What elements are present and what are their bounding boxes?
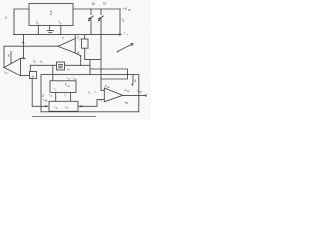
wire bus to amp3 input xyxy=(21,35,26,59)
supply rail +VB xyxy=(73,8,121,10)
wire box a down to divider xyxy=(32,79,48,107)
wire transistor 11 loop to op-amp 9 xyxy=(90,69,128,90)
leader 4 arrow xyxy=(132,74,134,84)
transistor 10 xyxy=(90,9,92,15)
block ta tb xyxy=(49,101,78,111)
transistor 11 xyxy=(100,9,102,15)
junction dot corner-loop xyxy=(89,68,90,69)
junction dot rail-T1 xyxy=(90,8,91,9)
wire bus Fp xyxy=(13,34,122,36)
junction dot rail-T2 xyxy=(100,8,101,9)
wire stray bottom xyxy=(32,115,96,117)
junction dot crystal-boxa xyxy=(30,65,31,66)
junction dot bus-T1 xyxy=(90,34,91,35)
junction dot crystal-fvb xyxy=(52,65,53,66)
switch contact circle xyxy=(131,43,133,45)
junction dot bus-amp3 xyxy=(23,34,24,35)
switch lever xyxy=(118,45,132,52)
box 1 (oscillator block) xyxy=(29,4,73,26)
stub component to bus xyxy=(84,35,86,39)
junction dot bus-comp xyxy=(84,34,85,35)
wire block out to op-amp 9 xyxy=(78,100,104,107)
junction dot crystal-node8 xyxy=(80,65,81,66)
amplifier 7 (pointing left) xyxy=(58,39,75,54)
amplifier 3 (pointing left) xyxy=(4,58,21,75)
wire crystal net to block Fvb xyxy=(52,65,54,81)
crystal 5 xyxy=(57,62,65,70)
capacitor stub under box 1 xyxy=(49,26,51,31)
wires block Fvb to block tab xyxy=(55,92,57,101)
wire amp3 output to amp7 apex xyxy=(4,46,58,67)
junction dot bus-amp7 xyxy=(75,34,76,35)
pin tb stub xyxy=(60,26,62,35)
box a xyxy=(30,72,37,79)
junction dot T2-loop xyxy=(100,68,101,69)
pin ta stub xyxy=(37,26,39,35)
wire crystal node down xyxy=(89,59,91,74)
arrowhead bus end xyxy=(119,33,122,35)
switch pivot dot xyxy=(117,51,118,52)
enclosure 2 xyxy=(41,75,139,112)
wire crystal line to box a xyxy=(29,65,31,71)
wire component down xyxy=(85,48,101,59)
wire op-amp 9 output xyxy=(123,94,146,96)
node 8 diagonal xyxy=(75,53,80,56)
wire crystal line xyxy=(30,64,90,66)
wire amp3 to box a xyxy=(21,75,30,77)
component rect 12 xyxy=(82,39,89,48)
junction dot crystal-corner xyxy=(89,65,90,66)
scan grain overlay xyxy=(0,0,151,120)
terminal tout xyxy=(145,94,147,97)
stub amp7 to bus xyxy=(74,35,76,39)
wire rail drop right xyxy=(119,9,121,34)
block Fvb xyxy=(50,81,76,93)
wire left from box 1 xyxy=(14,9,29,35)
op-amp 9 xyxy=(104,88,123,102)
label 3 leader xyxy=(10,51,12,64)
wire transistor 11 drop xyxy=(100,18,102,80)
wire node 8 down xyxy=(80,56,82,65)
